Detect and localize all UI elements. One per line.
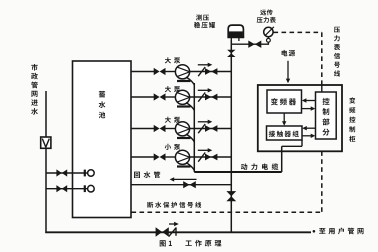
protection signal line vertical <box>321 151 323 212</box>
label 电源 <box>282 50 296 56</box>
pipe valve-to-pump 3 <box>165 128 176 130</box>
junction dot before user-net label <box>313 230 316 233</box>
check valve pump 2 <box>198 93 205 102</box>
power feed arrow <box>286 61 290 83</box>
valve under surge tank <box>227 50 235 57</box>
caption 工作原理 <box>185 240 221 247</box>
fill branch pipe 1 <box>46 172 88 174</box>
gauge stem <box>267 36 269 38</box>
valve on return pipe <box>183 181 196 188</box>
pump P1 base <box>177 80 191 82</box>
protection signal line horizontal <box>132 211 322 213</box>
pump cable bus <box>193 83 195 172</box>
gauge needle <box>265 27 274 36</box>
surge tank legs <box>231 38 239 41</box>
filter/meter box on inlet <box>41 137 51 148</box>
valve on fill branch 2 <box>56 185 67 192</box>
suction valve pump 2 <box>154 93 166 100</box>
suction valve pump 3 <box>154 125 166 132</box>
label 小泵 (pump 4) <box>165 144 181 150</box>
check valve pump 3 <box>198 124 205 133</box>
surge tank 稳压罐 body <box>228 25 245 37</box>
return flow arrow <box>170 177 197 181</box>
pump P2 circle <box>175 90 189 104</box>
label 远传 <box>260 9 273 15</box>
fill branch pipe 2 <box>46 188 88 190</box>
caption 图1 <box>160 240 172 246</box>
VFD box 变频器 <box>267 90 302 113</box>
suction pipe pump 3 <box>131 128 154 130</box>
float valve stem 2 <box>84 185 86 192</box>
label 大泵 (pump 1) <box>165 57 180 63</box>
label 控制部分 <box>322 98 329 136</box>
pump P3 base <box>177 137 191 139</box>
label 测压 <box>196 15 209 21</box>
contactor box 接触器组 <box>267 126 303 140</box>
label 断水保护信号线 <box>147 202 201 208</box>
arrow control->VFD <box>302 98 316 102</box>
discharge pipe pump 4 <box>190 156 232 158</box>
bottom main pipe to users <box>45 231 311 233</box>
discharge valve pump 4 <box>205 154 217 161</box>
label 至用户管网 <box>319 228 363 235</box>
discharge pipe pump 1 <box>190 71 232 73</box>
float ball 1 <box>88 170 95 177</box>
discharge valve pump 2 <box>205 94 217 101</box>
label 压力表 <box>257 17 276 23</box>
discharge valve pump 1 <box>205 68 217 75</box>
discharge pipe pump 3 <box>190 128 232 130</box>
discharge pipe pump 2 <box>190 96 232 98</box>
label 变频控制柜 <box>349 97 355 142</box>
inlet pipe <box>45 91 47 233</box>
arrow VFD->contactor <box>282 113 286 126</box>
return pipe 回水管 <box>131 184 231 186</box>
pressure signal line vertical <box>321 32 323 84</box>
pump P4 cable tail <box>186 163 194 171</box>
valve on fill branch 1 <box>56 169 67 176</box>
cable inside cabinet <box>282 140 302 172</box>
flow arrow on bottom main <box>169 222 179 226</box>
signal line into cabinet <box>321 85 323 93</box>
valve V10 on bottom main <box>156 227 169 236</box>
label 动力电缆 <box>241 163 278 170</box>
suction pipe pump 2 <box>131 96 154 98</box>
suction pipe pump 1 <box>131 71 154 73</box>
label 大泵 (pump 3) <box>165 117 180 123</box>
suction pipe pump 4 <box>131 156 154 158</box>
suction valve pump 4 <box>154 153 166 160</box>
discharge valve pump 3 <box>205 125 217 132</box>
pressure signal line horizontal <box>274 31 322 33</box>
pump P1 cable tail <box>186 77 194 85</box>
arrow VFD->control <box>302 106 316 110</box>
pipe valve-to-pump 2 <box>165 96 176 98</box>
control cabinet outline <box>258 85 342 151</box>
pump P1 circle <box>175 65 189 79</box>
float valve stem 1 <box>84 170 86 177</box>
label 稳压罐 <box>194 22 215 28</box>
pipe valve-to-pump 1 <box>165 71 176 73</box>
arrow contactor->control <box>302 134 315 138</box>
municipal inlet label 市政管网进水 <box>31 64 38 115</box>
arrow control->contactor <box>302 126 315 130</box>
gauge branch pipe <box>231 42 269 45</box>
check valve pump 1 <box>198 67 205 76</box>
label 蓄水池 <box>99 91 106 118</box>
suction valve pump 1 <box>154 68 166 75</box>
label 大泵 (pump 2) <box>165 86 180 92</box>
reservoir tank 蓄水池 <box>73 61 132 218</box>
pipe valve-to-pump 4 <box>165 156 176 158</box>
pump P4 base <box>177 165 191 167</box>
label 变频器 <box>271 98 296 105</box>
flow arrow pump 1 <box>198 63 213 67</box>
gauge stem circle <box>267 38 271 42</box>
float ball 2 <box>88 185 95 192</box>
discharge riser pipe <box>230 40 232 232</box>
label 压力表信号线 <box>334 27 340 77</box>
check valve pump 4 <box>198 153 205 162</box>
pressure gauge dial <box>264 27 273 36</box>
power cable horizontal 动力电缆 <box>194 171 281 173</box>
pump P2 base <box>177 105 191 107</box>
control section box 控制部分 <box>316 92 337 139</box>
main outlet valve on riser <box>226 191 236 201</box>
pump P2 cable tail <box>186 103 194 111</box>
label 接触器组 <box>269 131 299 137</box>
pump P4 circle <box>175 150 189 164</box>
pump P3 circle <box>175 122 189 136</box>
label 回水管 <box>134 171 160 178</box>
flow arrow pump 3 <box>198 120 213 124</box>
flow arrow pump 4 <box>198 148 213 152</box>
check valve on bottom main <box>169 227 176 236</box>
valve on gauge branch <box>248 41 261 48</box>
flow arrow pump 2 <box>198 88 213 92</box>
pump P3 cable tail <box>186 134 194 142</box>
